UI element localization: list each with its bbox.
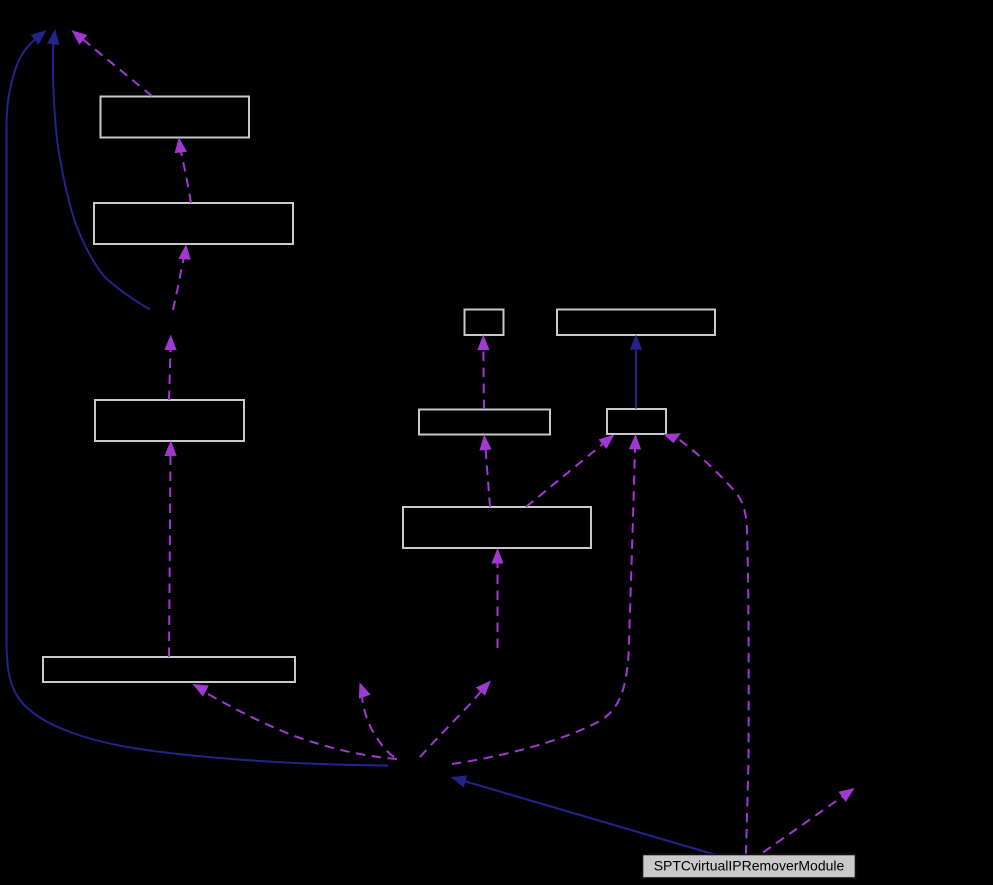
edge D3b dashed usage from node N3 to invisible node I5 bbox=[165, 336, 176, 400]
node N2 (empty class box, second in left column) bbox=[94, 203, 293, 244]
edge D10 dashed usage from node N7 to node N5 bbox=[478, 336, 489, 409]
node N7 (empty box, middle) bbox=[419, 410, 550, 435]
edge D2 dashed usage from node N2 to node N1 bbox=[175, 139, 191, 204]
edge B4 solid inheritance from node N8 up to node N6 bbox=[631, 336, 642, 409]
edge D11 dashed usage diagonal from node N9 to node N8 bbox=[526, 435, 613, 507]
edge B2 solid inheritance long left curve from hub to top-left node bbox=[7, 31, 389, 766]
svg-text:SPTCvirtualIPRemoverModule: SPTCvirtualIPRemoverModule bbox=[654, 858, 845, 874]
edge D12 dashed usage long curve from node N10 to node N8 bbox=[665, 434, 749, 855]
edge D9 dashed usage from node N9 to node N7 bbox=[480, 436, 491, 507]
node N6 (wide empty box, middle right) bbox=[557, 310, 715, 336]
edge D8 dashed usage from invisible node I3 to node N9 bbox=[492, 550, 503, 649]
node N10 SPTCvirtualIPRemoverModule (highlighted current node) bbox=[643, 855, 856, 879]
edge D5 dashed usage from hub to node N4 bbox=[194, 685, 398, 760]
node N1 (empty class box, top left column) bbox=[101, 97, 250, 138]
node N8 (small empty box, middle right) bbox=[607, 409, 666, 434]
edge D14 dashed usage long right curve from hub to node N8 bbox=[452, 435, 640, 764]
edge B3 solid inheritance curve from invisible node I5 to top-left node bbox=[48, 30, 150, 309]
edge D6 dashed usage from hub to invisible node I2 bbox=[359, 684, 394, 758]
edge D13 dashed usage from node N10 to invisible node I4 bbox=[763, 789, 854, 853]
edge D1 dashed usage from node N1 to top-left node bbox=[73, 31, 153, 96]
edge D3a dashed usage from invisible node I5 to node N2 bbox=[173, 246, 190, 311]
edge D7 dashed usage from hub to invisible node I3 bbox=[420, 682, 490, 758]
node N9 (large empty box, middle) bbox=[403, 507, 591, 548]
node N5 (small empty box, middle) bbox=[465, 310, 504, 336]
node N4 (empty wide box, bottom left) bbox=[43, 657, 295, 682]
edge D4 dashed usage from node N4 to node N3 bbox=[165, 442, 176, 657]
edge B1 solid inheritance from node N10 to hub bbox=[452, 776, 718, 856]
node N3 (empty class box, third in left column) bbox=[95, 400, 244, 441]
